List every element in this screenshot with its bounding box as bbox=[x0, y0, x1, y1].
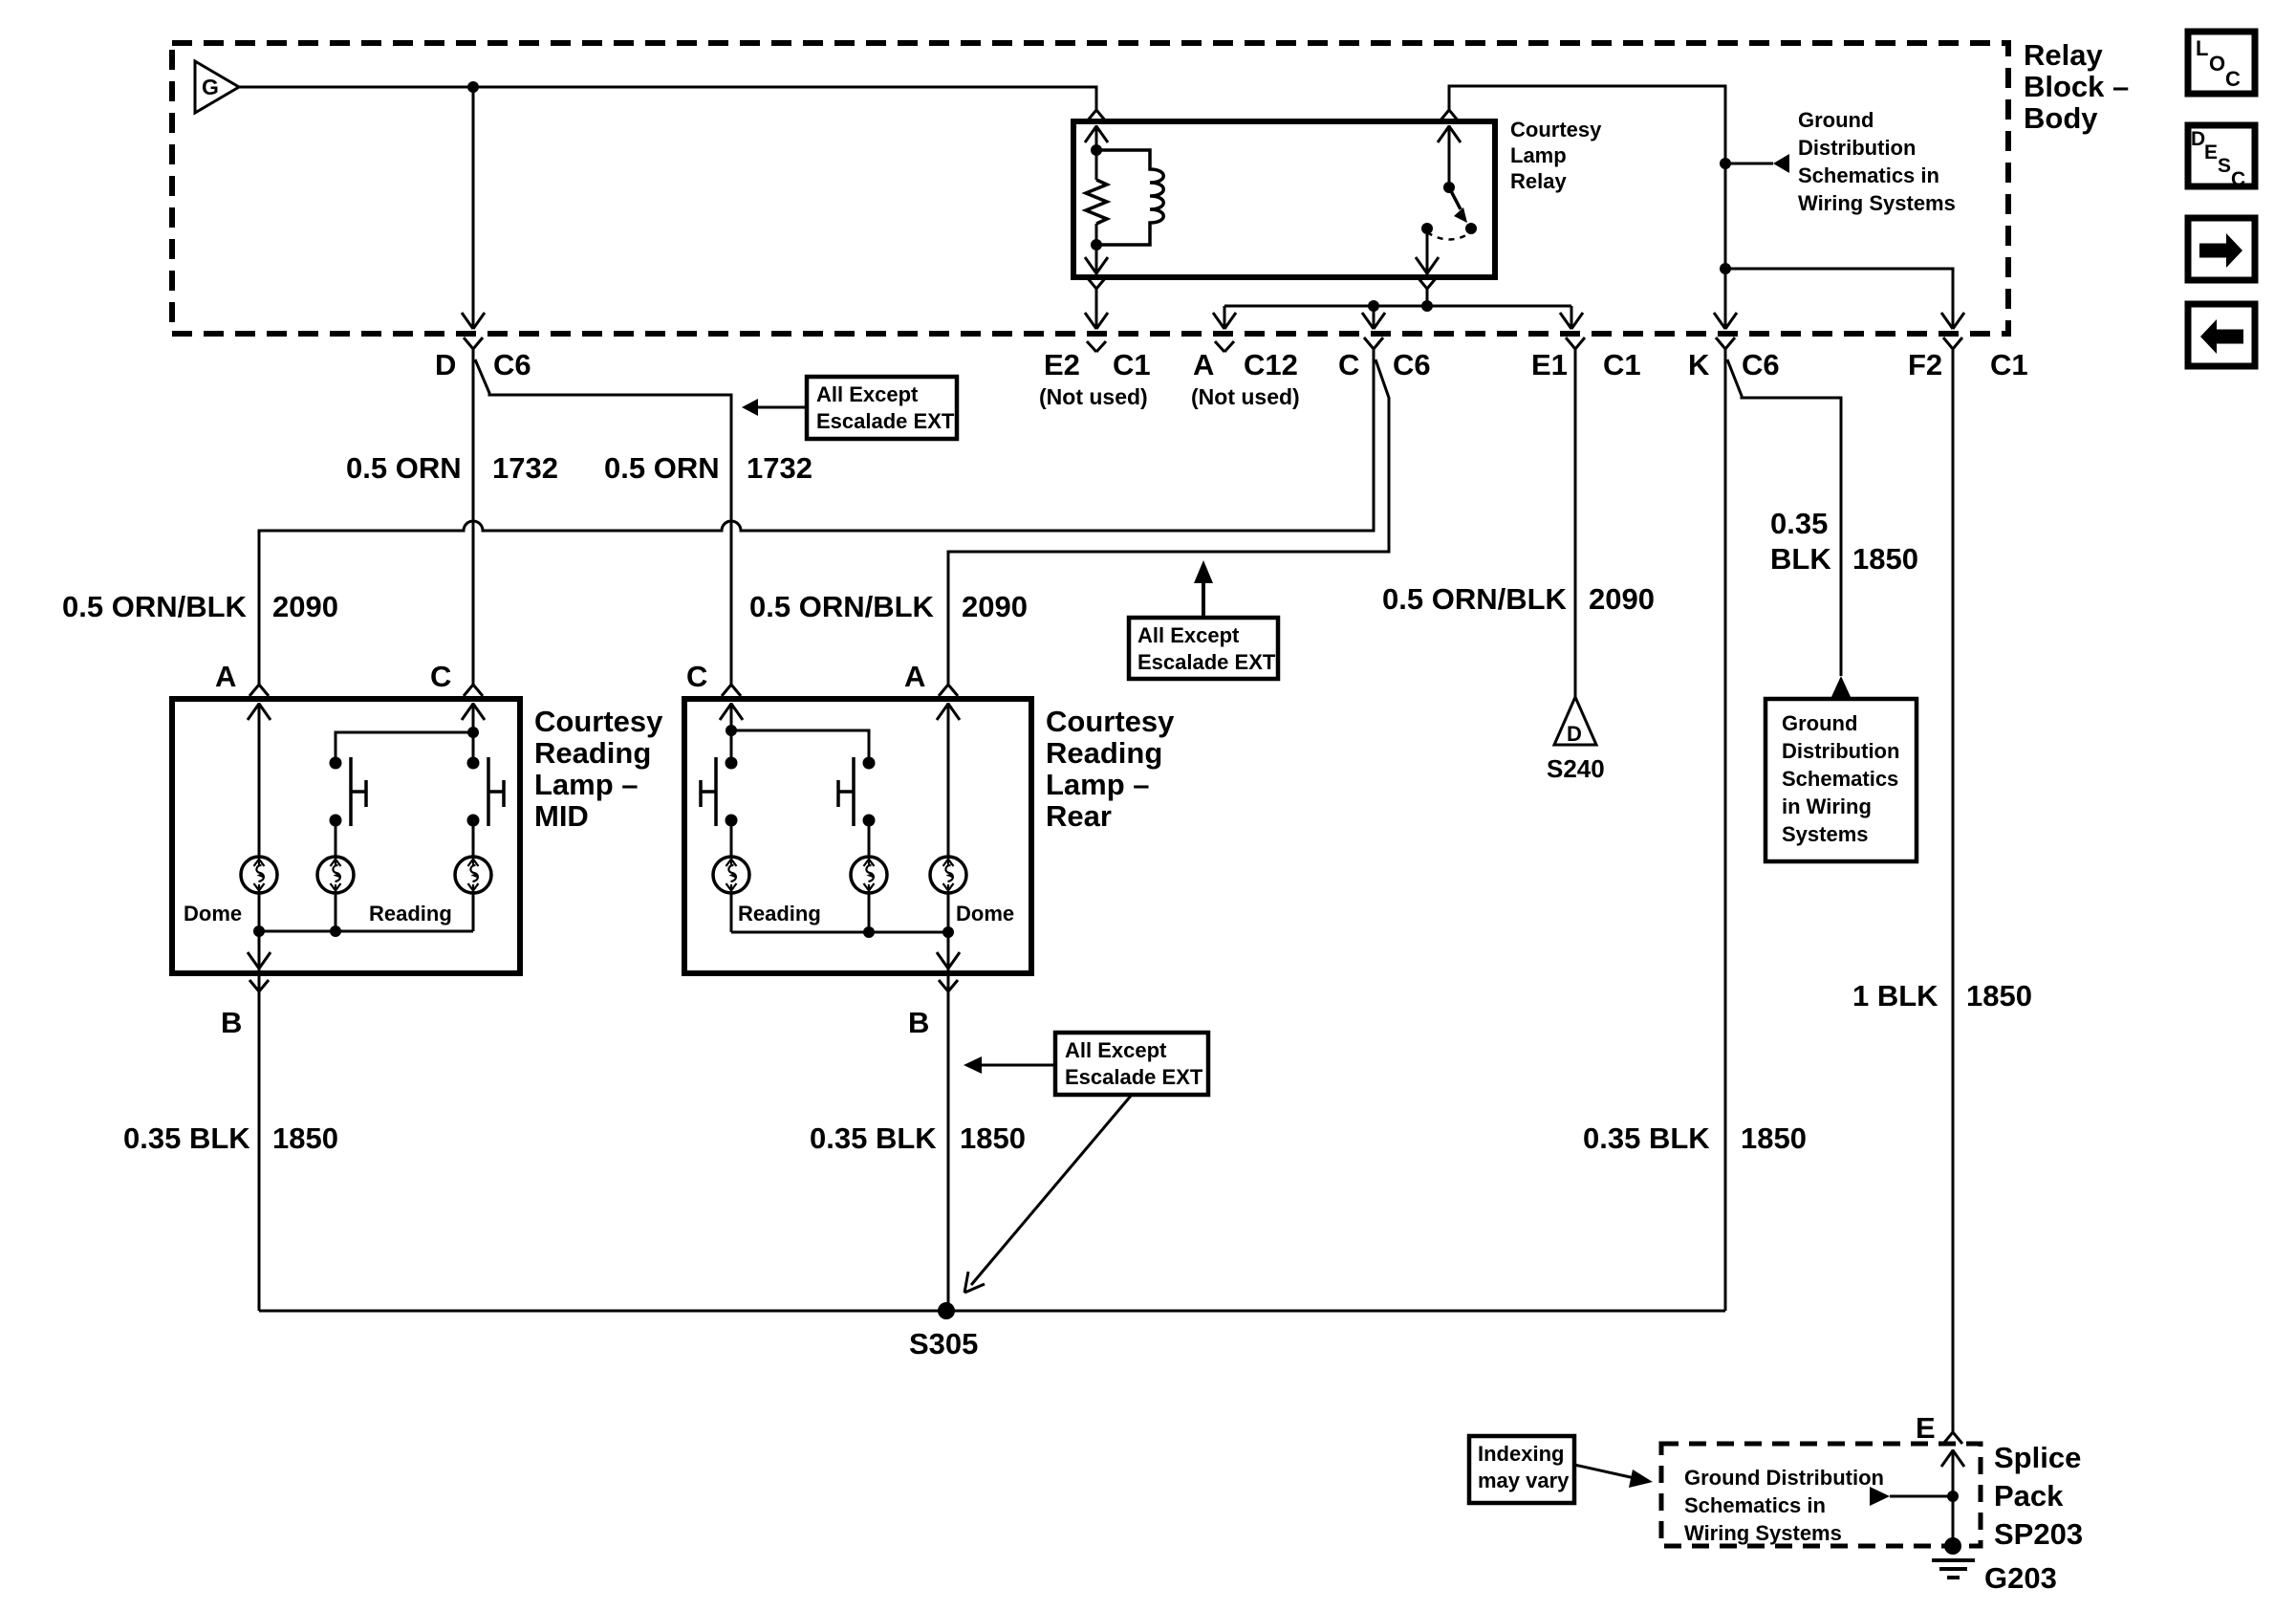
svg-text:Lamp –: Lamp – bbox=[1046, 768, 1150, 801]
svg-text:Dome: Dome bbox=[956, 902, 1014, 925]
relay switch pivot dot bbox=[1443, 182, 1455, 193]
bus drop to E1 bbox=[1570, 306, 1573, 329]
icon box arrow right bbox=[2188, 218, 2255, 280]
svg-text:C6: C6 bbox=[1393, 348, 1431, 381]
MID reading switch 1 bbox=[330, 757, 367, 827]
svg-text:SP203: SP203 bbox=[1994, 1517, 2083, 1551]
svg-text:1732: 1732 bbox=[492, 451, 558, 485]
splice reference triangle S240 bbox=[1547, 697, 1605, 783]
wire from G to coil pin bbox=[239, 87, 1096, 98]
relay coil pin below box female cup bbox=[1087, 277, 1106, 301]
svg-text:F2: F2 bbox=[1908, 348, 1942, 381]
wire C to MID lamp pin A (with hops) bbox=[259, 356, 1374, 680]
connector C6 female cup below border at D bbox=[464, 337, 483, 361]
svg-text:2090: 2090 bbox=[1589, 582, 1655, 616]
svg-text:Escalade EXT: Escalade EXT bbox=[1065, 1065, 1203, 1089]
wire K to F2 drop bbox=[1725, 269, 1953, 329]
wire from switch pin to K drop bbox=[1449, 86, 1725, 329]
MID reading bulb 1 wire bbox=[335, 820, 337, 931]
svg-text:Escalade EXT: Escalade EXT bbox=[816, 409, 955, 433]
REAR bottom link wire bbox=[731, 931, 948, 934]
callout box all except escalade ext bottom bbox=[964, 1033, 1208, 1293]
splice pack internal wire bbox=[1952, 1449, 1955, 1544]
courtesy lamp relay box bbox=[1073, 121, 1495, 277]
svg-text:C: C bbox=[2225, 67, 2241, 91]
REAR pin A male arrow inside bbox=[937, 703, 960, 734]
svg-text:O: O bbox=[2209, 52, 2225, 76]
svg-text:Reading: Reading bbox=[738, 902, 821, 925]
MID pin A male arrow inside bbox=[248, 703, 271, 734]
wire C branch to REAR lamp pin A bbox=[948, 359, 1389, 680]
svg-text:Schematics in: Schematics in bbox=[1684, 1493, 1826, 1517]
wire coil pin to connector E2 bbox=[1095, 290, 1098, 329]
REAR reading bulb 1 bbox=[713, 857, 749, 893]
svg-text:0.35: 0.35 bbox=[1770, 507, 1828, 540]
svg-text:0.5 ORN/BLK: 0.5 ORN/BLK bbox=[749, 590, 935, 623]
splice S305 dot bbox=[938, 1302, 955, 1319]
svg-text:C1: C1 bbox=[1113, 348, 1151, 381]
svg-text:Reading: Reading bbox=[369, 902, 452, 925]
svg-text:Body: Body bbox=[2024, 101, 2098, 135]
wire K/C6 down to bus bbox=[1724, 356, 1727, 1311]
bus drop to C bbox=[1373, 306, 1375, 329]
svg-text:Ground Distribution: Ground Distribution bbox=[1684, 1466, 1884, 1490]
svg-text:C: C bbox=[1338, 348, 1359, 381]
MID reading bulb 2 wire bbox=[472, 820, 475, 931]
connector C12 cup at A (not used) bbox=[1215, 341, 1234, 352]
svg-text:S: S bbox=[2218, 155, 2231, 177]
node G (circuit reference triangle) bbox=[195, 61, 239, 113]
svg-text:A: A bbox=[215, 660, 236, 693]
wire E1 down to S240 bbox=[1574, 356, 1577, 699]
svg-text:D: D bbox=[1567, 722, 1582, 746]
REAR reading bulb 1 wire bbox=[730, 820, 733, 932]
svg-text:Ground: Ground bbox=[1798, 108, 1874, 132]
svg-text:0.5 ORN/BLK: 0.5 ORN/BLK bbox=[62, 590, 248, 623]
svg-text:Courtesy: Courtesy bbox=[1510, 118, 1602, 142]
connector C6 female cup below border at C bbox=[1364, 337, 1383, 361]
svg-text:Ground: Ground bbox=[1782, 711, 1857, 735]
ground bus wire bbox=[259, 1310, 1725, 1313]
wire D branch to REAR lamp pin C bbox=[475, 359, 731, 680]
svg-text:Wiring Systems: Wiring Systems bbox=[1798, 191, 1956, 215]
svg-text:C1: C1 bbox=[1603, 348, 1641, 381]
indexing may vary box bbox=[1469, 1436, 1653, 1503]
icon box arrow left bbox=[2188, 304, 2255, 366]
courtesy reading lamp MID box bbox=[172, 699, 520, 973]
relay internal left vertical wire bbox=[1095, 125, 1098, 274]
svg-text:1850: 1850 bbox=[272, 1121, 338, 1155]
svg-text:Escalade EXT: Escalade EXT bbox=[1137, 650, 1276, 674]
svg-text:D: D bbox=[2191, 128, 2205, 150]
female cup above MID pin C bbox=[464, 673, 483, 696]
junction dot MID bottom A bbox=[253, 925, 265, 937]
junction dot F2 branch bbox=[1720, 263, 1731, 274]
MID bottom link wire bbox=[259, 930, 473, 933]
svg-text:1850: 1850 bbox=[1966, 979, 2032, 1012]
REAR reading bulb 2 wire bbox=[868, 820, 871, 932]
relay switch output wire bbox=[1426, 229, 1429, 274]
svg-text:Block –: Block – bbox=[2024, 70, 2129, 103]
svg-text:in Wiring: in Wiring bbox=[1782, 795, 1872, 818]
female cup above MID pin A bbox=[249, 673, 269, 696]
REAR C wire bbox=[730, 703, 733, 763]
female cup above splice pack E pin bbox=[1943, 1421, 1962, 1444]
relay coil bottom arrow to box edge bbox=[1085, 243, 1108, 274]
relay coil winding bbox=[1096, 150, 1163, 245]
svg-text:All Except: All Except bbox=[1065, 1038, 1167, 1062]
MID pin B wire bbox=[258, 931, 261, 1311]
relay coil pin (top) female cup bbox=[1087, 98, 1106, 121]
MID reading bulb 1 bbox=[317, 857, 354, 893]
connector C1 female cup below border at F2 bbox=[1943, 337, 1962, 361]
MID dome wire bbox=[258, 703, 261, 931]
svg-text:Splice: Splice bbox=[1994, 1441, 2081, 1474]
svg-text:may vary: may vary bbox=[1478, 1469, 1570, 1492]
svg-text:E: E bbox=[1916, 1411, 1936, 1445]
svg-text:Lamp: Lamp bbox=[1510, 143, 1567, 167]
svg-text:Distribution: Distribution bbox=[1798, 136, 1916, 160]
connector arrow into dashed border at E2 bbox=[1085, 313, 1108, 329]
label Courtesy Lamp Relay bbox=[1510, 118, 1602, 193]
relay switch moving arm with arrowhead bbox=[1449, 187, 1467, 223]
female cup above REAR pin A bbox=[939, 673, 958, 696]
svg-text:Courtesy: Courtesy bbox=[534, 705, 663, 738]
wire D to MID lamp pin C bbox=[472, 356, 475, 680]
svg-text:S240: S240 bbox=[1547, 754, 1605, 783]
MID pin C male arrow inside bbox=[462, 703, 485, 734]
relay switch stationary contact right bbox=[1465, 223, 1477, 234]
svg-text:Relay: Relay bbox=[1510, 169, 1567, 193]
svg-text:E2: E2 bbox=[1044, 348, 1080, 381]
junction dot MID C link bbox=[467, 727, 479, 738]
REAR pin B wire bbox=[947, 932, 950, 1311]
junction dot REAR C link bbox=[726, 725, 737, 736]
svg-text:G203: G203 bbox=[1984, 1561, 2057, 1595]
relay switch common pin female cup above box bbox=[1440, 98, 1459, 121]
label Relay Block Body bbox=[2024, 38, 2129, 135]
svg-text:All Except: All Except bbox=[1137, 623, 1240, 647]
svg-text:C6: C6 bbox=[493, 348, 531, 381]
svg-text:D: D bbox=[435, 348, 456, 381]
svg-text:G: G bbox=[202, 75, 219, 99]
svg-text:A: A bbox=[904, 660, 925, 693]
svg-text:1850: 1850 bbox=[1852, 542, 1918, 576]
connector arrow into dashed border at D bbox=[462, 313, 485, 329]
REAR pin B male arrow inside bbox=[937, 938, 960, 969]
svg-text:C: C bbox=[430, 660, 451, 693]
junction dot REAR bottom reading bbox=[863, 926, 875, 938]
svg-text:Schematics: Schematics bbox=[1782, 767, 1898, 791]
svg-text:A: A bbox=[1193, 348, 1214, 381]
relay switch common pin arrow inside bbox=[1438, 125, 1461, 157]
female cup below MID pin B bbox=[249, 980, 269, 1004]
splice pack dashed box bbox=[1661, 1444, 1981, 1546]
svg-text:S305: S305 bbox=[909, 1327, 978, 1361]
junction dot bus at C bbox=[1368, 300, 1379, 312]
wire from G junction down to connector D bbox=[472, 87, 475, 329]
icon box DESC bbox=[2188, 125, 2255, 190]
REAR pin C male arrow inside bbox=[720, 703, 743, 734]
splice pack internal reference arrow bbox=[1870, 1487, 1953, 1506]
svg-text:0.5 ORN/BLK: 0.5 ORN/BLK bbox=[1382, 582, 1568, 616]
ground G203 dot bbox=[1944, 1537, 1961, 1555]
MID C wire bbox=[472, 703, 475, 763]
MID pin B male arrow inside bbox=[248, 938, 271, 969]
svg-text:Wiring Systems: Wiring Systems bbox=[1684, 1521, 1842, 1545]
female cup below REAR pin B bbox=[939, 980, 958, 1004]
svg-text:Relay: Relay bbox=[2024, 38, 2103, 72]
callout box all except escalade ext top bbox=[742, 377, 957, 439]
svg-text:B: B bbox=[908, 1006, 929, 1039]
wire switch output to bus bbox=[1426, 290, 1429, 306]
relay switch travel dashed arc bbox=[1427, 232, 1471, 240]
svg-text:Reading: Reading bbox=[534, 736, 651, 770]
label Courtesy Reading Lamp Rear bbox=[1046, 705, 1175, 833]
MID top link wire bbox=[336, 732, 473, 763]
svg-text:Distribution: Distribution bbox=[1782, 739, 1899, 763]
ground distribution reference box bbox=[1765, 699, 1917, 861]
relay output bus inside dashed block bbox=[1224, 305, 1571, 308]
relay coil pin male arrow inside bbox=[1085, 125, 1108, 157]
svg-text:0.5 ORN: 0.5 ORN bbox=[604, 451, 720, 485]
connector C1 cup at E2 (not used) bbox=[1087, 341, 1106, 352]
splice pack reference text bbox=[1684, 1466, 1884, 1545]
REAR dome wire bbox=[947, 703, 950, 932]
connector C6 female cup below border at K bbox=[1716, 337, 1735, 361]
svg-text:E1: E1 bbox=[1531, 348, 1568, 381]
svg-text:1850: 1850 bbox=[1741, 1121, 1807, 1155]
svg-text:2090: 2090 bbox=[962, 590, 1028, 623]
connector arrow into dashed border at K bbox=[1714, 313, 1737, 329]
svg-text:C: C bbox=[686, 660, 707, 693]
REAR reading switch 2 (mirrored) bbox=[838, 757, 876, 827]
icon box LOC bbox=[2188, 32, 2255, 94]
svg-text:Rear: Rear bbox=[1046, 799, 1112, 833]
relay block body dashed box bbox=[172, 43, 2008, 334]
ground symbol G203 bbox=[1932, 1560, 1975, 1578]
connector arrow into dashed border at F2 bbox=[1941, 313, 1964, 329]
svg-text:1 BLK: 1 BLK bbox=[1852, 979, 1939, 1012]
svg-text:(Not used): (Not used) bbox=[1039, 384, 1148, 409]
svg-text:E: E bbox=[2204, 142, 2218, 163]
svg-text:Courtesy: Courtesy bbox=[1046, 705, 1175, 738]
svg-text:Schematics in: Schematics in bbox=[1798, 163, 1939, 187]
relay switch stationary contact left bbox=[1421, 223, 1433, 234]
svg-text:0.35 BLK: 0.35 BLK bbox=[123, 1121, 250, 1155]
relay switch output female cup below box bbox=[1418, 277, 1437, 301]
junction dot coil bottom bbox=[1091, 239, 1102, 250]
MID reading switch 2 bbox=[467, 757, 505, 827]
junction dot coil top bbox=[1091, 144, 1102, 156]
resistor (relay coil suppression) bbox=[1086, 180, 1107, 224]
svg-text:MID: MID bbox=[534, 799, 589, 833]
label Courtesy Reading Lamp MID bbox=[534, 705, 663, 833]
svg-text:0.35 BLK: 0.35 BLK bbox=[810, 1121, 937, 1155]
svg-text:Indexing: Indexing bbox=[1478, 1442, 1564, 1466]
svg-text:0.35 BLK: 0.35 BLK bbox=[1583, 1121, 1710, 1155]
label Splice Pack SP203 bbox=[1994, 1441, 2083, 1551]
REAR dome bulb bbox=[930, 857, 966, 893]
svg-text:C12: C12 bbox=[1244, 348, 1298, 381]
REAR reading bulb 2 bbox=[851, 857, 887, 893]
svg-text:(Not used): (Not used) bbox=[1191, 384, 1300, 409]
svg-text:BLK: BLK bbox=[1770, 542, 1831, 576]
svg-text:K: K bbox=[1688, 348, 1710, 381]
relay switch output arrow to box edge bbox=[1416, 243, 1439, 274]
relay switch common wire bbox=[1448, 125, 1451, 187]
svg-text:2090: 2090 bbox=[272, 590, 338, 623]
svg-text:C6: C6 bbox=[1742, 348, 1780, 381]
connector C1 female cup below border at E1 bbox=[1566, 337, 1585, 361]
junction dot MID bottom reading bbox=[330, 925, 341, 937]
REAR reading switch 1 (mirrored) bbox=[701, 757, 738, 827]
junction dot K callout bbox=[1720, 158, 1731, 169]
wire F2 down to splice pack bbox=[1952, 356, 1955, 1428]
junction dot on G wire bbox=[467, 81, 479, 93]
svg-text:C1: C1 bbox=[1990, 348, 2028, 381]
label 0.35 BLK 1850 (K branch, two-line) bbox=[1770, 507, 1918, 576]
junction dot splice pack bbox=[1947, 1491, 1959, 1502]
svg-text:0.5 ORN: 0.5 ORN bbox=[346, 451, 462, 485]
svg-text:Lamp –: Lamp – bbox=[534, 768, 639, 801]
svg-text:B: B bbox=[221, 1006, 242, 1039]
svg-text:C: C bbox=[2231, 168, 2245, 190]
bus drop to A bbox=[1224, 306, 1226, 329]
svg-text:1732: 1732 bbox=[747, 451, 812, 485]
wire K branch to ground distribution reference bbox=[1727, 359, 1841, 676]
MID reading bulb 2 bbox=[455, 857, 491, 893]
svg-text:All Except: All Except bbox=[816, 382, 919, 406]
callout box all except escalade ext middle bbox=[1129, 560, 1278, 679]
callout ground distribution top right bbox=[1725, 108, 1956, 215]
REAR top link wire bbox=[731, 730, 869, 763]
courtesy reading lamp REAR box bbox=[684, 699, 1031, 973]
junction dot bus at switch output bbox=[1421, 300, 1433, 312]
junction dot REAR bottom A bbox=[942, 926, 954, 938]
female cup above REAR pin C bbox=[722, 673, 741, 696]
svg-text:Dome: Dome bbox=[184, 902, 242, 925]
arrowhead into ground distribution box bbox=[1830, 676, 1852, 699]
svg-text:Pack: Pack bbox=[1994, 1479, 2064, 1513]
svg-text:1850: 1850 bbox=[960, 1121, 1026, 1155]
splice pack E male arrow inside bbox=[1941, 1449, 1964, 1481]
svg-text:L: L bbox=[2196, 36, 2208, 60]
MID dome bulb bbox=[241, 857, 277, 893]
svg-text:Reading: Reading bbox=[1046, 736, 1162, 770]
svg-text:Systems: Systems bbox=[1782, 822, 1869, 846]
